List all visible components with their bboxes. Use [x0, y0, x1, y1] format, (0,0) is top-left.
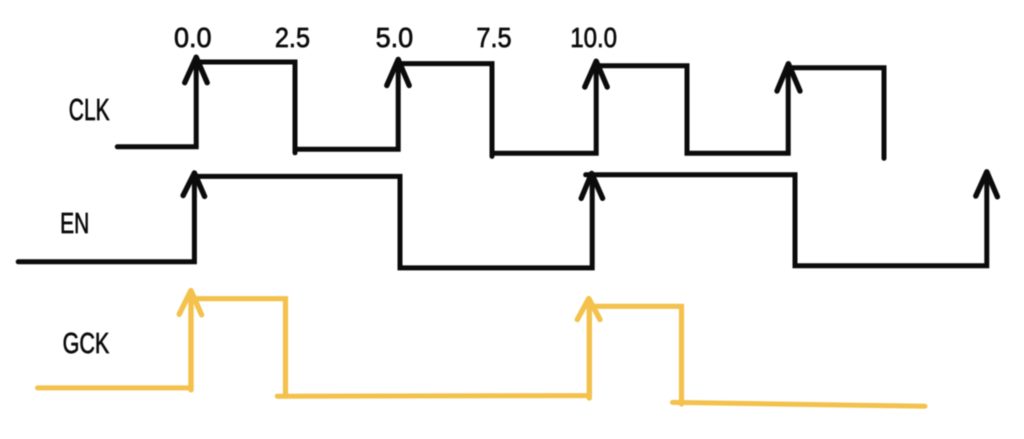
EN waveform trace	[18, 175, 987, 268]
CLK falling edge overshoot at 2.5	[293, 149, 298, 153]
CLK waveform trace	[117, 62, 884, 158]
svg-text:7.5: 7.5	[476, 22, 511, 53]
EN rising-edge arrowhead at 10.0	[581, 173, 602, 198]
CLK rising-edge arrowhead at 15.0	[777, 64, 800, 91]
svg-text:GCK: GCK	[63, 328, 110, 360]
svg-text:5.0: 5.0	[376, 22, 414, 53]
GCK rising edge shaft 1	[188, 293, 193, 390]
EN high-level left nub at 10.0 rising edge	[586, 172, 593, 177]
GCK pulse 2 top and falling edge	[591, 306, 682, 404]
GCK low segment 2	[277, 393, 589, 399]
GCK low segment 3	[673, 402, 926, 406]
svg-text:CLK: CLK	[69, 92, 110, 127]
svg-text:0.0: 0.0	[174, 22, 212, 53]
CLK rising-edge arrowhead at 0.0	[185, 57, 208, 82]
GCK rising-edge arrowhead 1	[179, 291, 201, 315]
GCK rising-edge arrowhead 2	[577, 299, 600, 320]
svg-text:10.0: 10.0	[570, 22, 617, 53]
svg-text:EN: EN	[60, 208, 89, 240]
EN rising-edge arrowhead at 0.0	[183, 173, 205, 196]
CLK falling edge overshoot at 7.5	[490, 153, 495, 156]
GCK pulse 1 top and falling edge	[193, 299, 286, 396]
CLK rising-edge arrowhead at 10.0	[585, 61, 607, 87]
CLK rising-edge arrowhead at 5.0	[387, 59, 409, 85]
GCK low segment 1	[38, 385, 191, 390]
GCK rising edge shaft 2	[587, 301, 592, 399]
svg-text:2.5: 2.5	[275, 22, 310, 53]
EN rising-edge arrowhead at 20.0 (right edge)	[976, 172, 998, 197]
